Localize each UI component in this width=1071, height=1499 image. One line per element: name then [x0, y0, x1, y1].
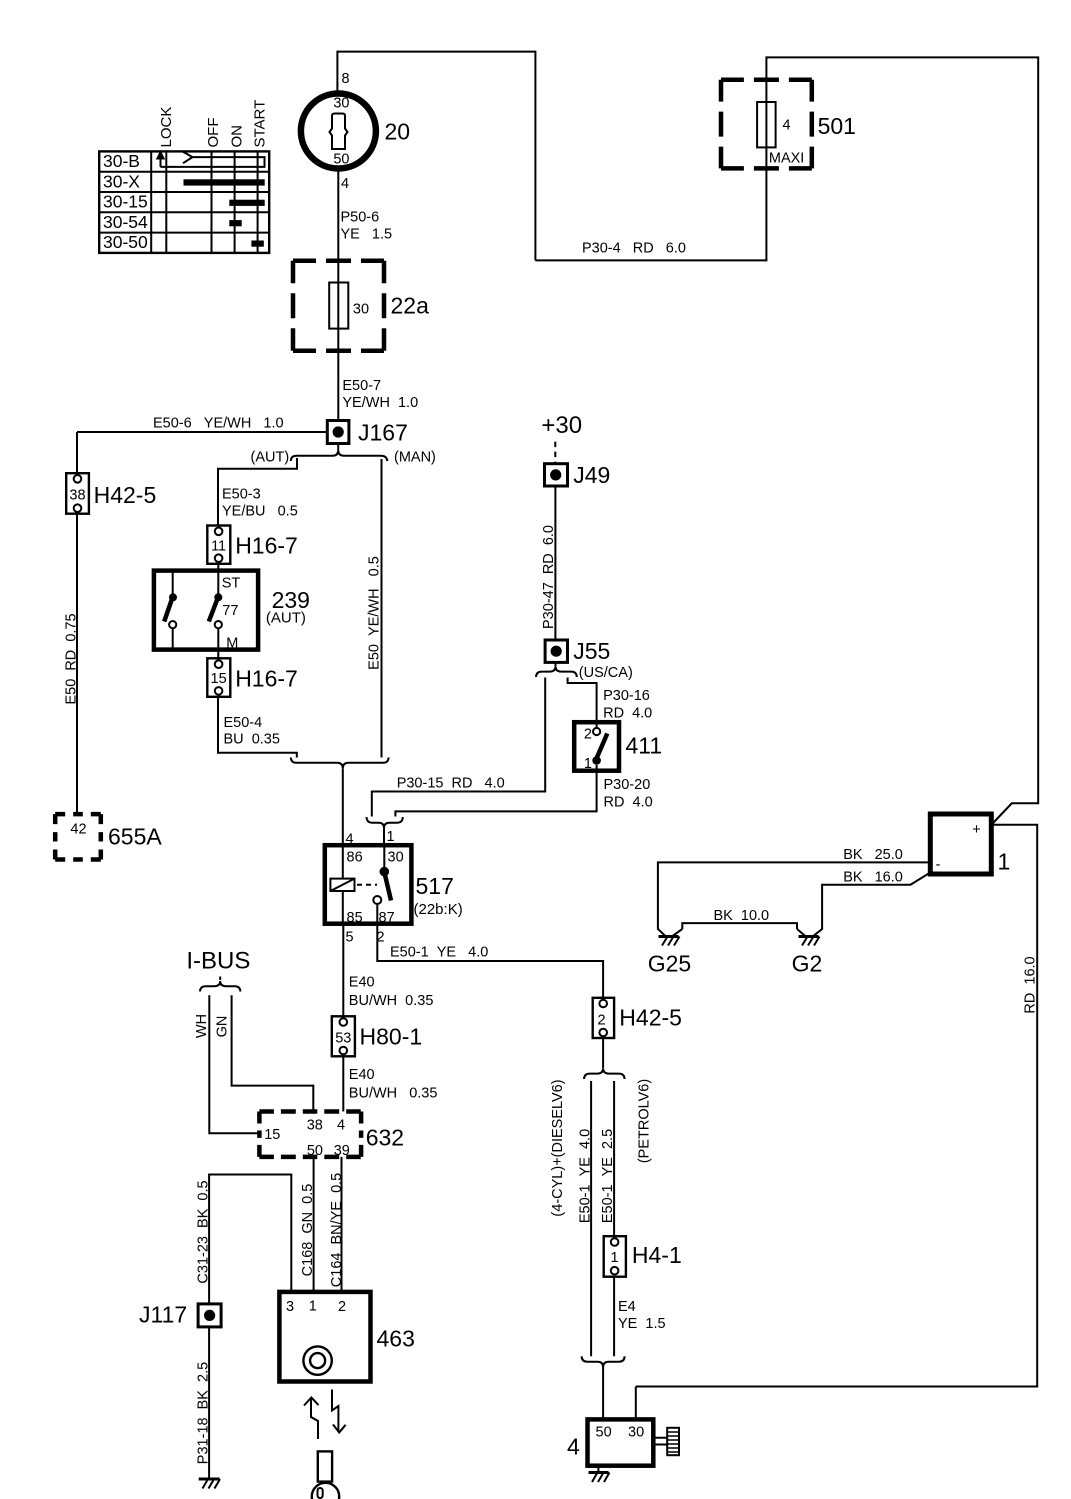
ground at unit 4	[597, 1466, 599, 1472]
svg-text:517: 517	[416, 873, 454, 899]
svg-text:START: START	[251, 100, 268, 148]
svg-text:LOCK: LOCK	[158, 107, 175, 148]
wire E4 YE 1.5	[614, 1277, 665, 1357]
svg-text:YE/WH 1.0: YE/WH 1.0	[342, 395, 418, 411]
fuse 22a	[293, 261, 429, 351]
connector H42-5 pin 2	[593, 998, 682, 1038]
wire: ignition terminal 8 feed to fuse 501	[337, 52, 535, 261]
connector H16-7 pin 11	[207, 526, 298, 564]
svg-text:E50 YE/WH 0.5: E50 YE/WH 0.5	[366, 556, 382, 670]
svg-text:G2: G2	[792, 951, 823, 977]
svg-text:H42-5: H42-5	[619, 1005, 682, 1031]
svg-text:1: 1	[309, 1299, 317, 1315]
wire C164 BN/YE 0.5 (632 pin 39 to 463 pin 2)	[329, 1157, 345, 1292]
svg-text:YE 1.5: YE 1.5	[341, 227, 393, 243]
svg-text:22a: 22a	[391, 293, 430, 319]
svg-text:(US/CA): (US/CA)	[579, 665, 633, 681]
svg-text:50: 50	[307, 1143, 323, 1159]
svg-text:RD 4.0: RD 4.0	[604, 795, 653, 811]
svg-text:P30-47 RD 6.0: P30-47 RD 6.0	[541, 525, 557, 629]
svg-text:C164 BN/YE 0.5: C164 BN/YE 0.5	[329, 1173, 345, 1287]
svg-text:463: 463	[377, 1326, 415, 1352]
svg-text:C168 GN 0.5: C168 GN 0.5	[300, 1184, 316, 1277]
svg-text:BU/WH 0.35: BU/WH 0.35	[349, 993, 434, 1009]
svg-text:+: +	[972, 822, 980, 838]
hatched actuator block at unit 4	[653, 1438, 667, 1445]
svg-text:15: 15	[264, 1127, 280, 1143]
svg-text:J49: J49	[573, 462, 610, 488]
svg-text:4: 4	[341, 176, 349, 192]
svg-text:1: 1	[584, 756, 592, 772]
svg-text:8: 8	[342, 71, 350, 87]
wire E50-4 BU 0.35	[218, 697, 297, 758]
wire BK 16.0 (battery - to G2)	[814, 870, 931, 936]
svg-text:E50-1 YE 2.5: E50-1 YE 2.5	[600, 1129, 616, 1223]
svg-text:50: 50	[333, 152, 349, 168]
svg-text:86: 86	[347, 850, 363, 866]
svg-text:3: 3	[286, 1299, 294, 1315]
splice J167	[327, 420, 408, 446]
wire BK 25.0 (battery - to G25)	[658, 847, 930, 936]
svg-text:30: 30	[333, 96, 349, 112]
svg-text:632: 632	[366, 1125, 404, 1151]
svg-text:53: 53	[335, 1030, 351, 1046]
svg-text:H42-5: H42-5	[94, 482, 157, 508]
ignition starter unit 4	[567, 1387, 679, 1483]
ignition switch position table	[99, 100, 269, 253]
svg-text:2: 2	[338, 1299, 346, 1315]
wire E50-1 YE 4.0 (relay 87 to H42-5)	[377, 924, 603, 998]
svg-text:20: 20	[385, 119, 411, 145]
wire P30-15 RD 4.0	[372, 678, 545, 817]
svg-text:E40: E40	[349, 1067, 375, 1083]
svg-text:5: 5	[346, 930, 354, 946]
svg-text:BK 10.0: BK 10.0	[714, 908, 770, 924]
svg-text:38: 38	[69, 487, 85, 503]
svg-text:C31-23 BK 0.5: C31-23 BK 0.5	[195, 1180, 211, 1283]
wire E50-1 YE 4.0 (4-cyl branch)	[578, 1081, 594, 1356]
wire P30-20 RD 4.0	[395, 765, 652, 817]
wire E40 BU/WH 0.35 (relay 85 to H80-1)	[343, 924, 433, 1017]
svg-text:BK 16.0: BK 16.0	[843, 870, 903, 886]
wire E50 YE/WH 0.5 (MAN branch)	[366, 459, 382, 758]
wire GN (I-BUS to 632 pin 38)	[215, 995, 314, 1111]
svg-text:H4-1: H4-1	[632, 1242, 682, 1268]
svg-text:J55: J55	[573, 638, 610, 664]
svg-text:E50 RD 0.75: E50 RD 0.75	[64, 613, 80, 704]
svg-text:P50-6: P50-6	[341, 210, 380, 226]
svg-text:50: 50	[596, 1425, 612, 1441]
connector H16-7 pin 15	[207, 658, 298, 697]
connector H4-1 pin 1	[604, 1236, 682, 1277]
svg-text:2: 2	[597, 1013, 605, 1029]
svg-text:GN: GN	[215, 1016, 231, 1038]
svg-text:(AUT): (AUT)	[266, 610, 306, 627]
svg-text:+30: +30	[541, 412, 582, 439]
wire E50-6 YE/WH 1.0	[77, 416, 327, 474]
svg-text:P30-20: P30-20	[604, 777, 651, 793]
svg-text:4: 4	[346, 831, 354, 847]
right switch ST/M inside 239	[217, 564, 219, 594]
svg-text:YE/BU 0.5: YE/BU 0.5	[222, 504, 298, 520]
svg-text:OFF: OFF	[205, 118, 222, 148]
svg-text:42: 42	[70, 822, 86, 838]
svg-text:P30-4 RD 6.0: P30-4 RD 6.0	[582, 241, 686, 257]
svg-text:85: 85	[347, 910, 363, 926]
svg-text:BK 25.0: BK 25.0	[843, 847, 903, 863]
svg-text:P31-18 BK 2.5: P31-18 BK 2.5	[195, 1362, 211, 1464]
svg-text:-: -	[936, 857, 941, 873]
wire P50-6 YE 1.5	[338, 169, 392, 261]
variant split 4-cyl+dieselV6 / petrolV6	[550, 1038, 652, 1217]
svg-text:E40: E40	[349, 974, 375, 990]
svg-text:30-54: 30-54	[103, 212, 148, 232]
svg-text:(22b:K): (22b:K)	[414, 901, 463, 918]
svg-text:BU/WH 0.35: BU/WH 0.35	[349, 1085, 438, 1101]
svg-text:E50-3: E50-3	[222, 487, 261, 503]
svg-text:G25: G25	[648, 951, 691, 977]
svg-text:P30-16: P30-16	[603, 688, 650, 704]
wire E50-1 YE 2.5 (petrol V6 branch)	[600, 1081, 616, 1236]
svg-text:ON: ON	[228, 125, 245, 148]
svg-text:(4-CYL)+(DIESELV6): (4-CYL)+(DIESELV6)	[550, 1079, 566, 1216]
svg-text:15: 15	[211, 671, 227, 687]
svg-text:1: 1	[998, 849, 1011, 875]
svg-text:30-50: 30-50	[103, 232, 148, 252]
control module connector 632	[259, 1112, 404, 1160]
svg-text:WH: WH	[194, 1014, 210, 1038]
svg-text:77: 77	[222, 603, 238, 619]
variant split (AUT)/(MAN) below J167	[251, 444, 436, 466]
svg-text:BU 0.35: BU 0.35	[224, 732, 280, 748]
svg-text:501: 501	[818, 113, 856, 139]
svg-text:411: 411	[626, 733, 663, 759]
wire P30-16 RD 4.0	[568, 678, 653, 729]
svg-text:E4: E4	[618, 1299, 636, 1315]
wire P30-4 RD 6.0	[535, 168, 766, 260]
ground G2	[792, 937, 823, 977]
wire E50-3 YE/BU 0.5 (AUT branch)	[218, 458, 298, 526]
svg-text:87: 87	[379, 910, 395, 926]
svg-text:655A: 655A	[108, 824, 162, 850]
ignition switch 20	[301, 71, 410, 192]
ground G25	[648, 937, 691, 977]
svg-text:30-B: 30-B	[103, 151, 140, 171]
svg-text:YE 1.5: YE 1.5	[618, 1316, 666, 1332]
svg-text:P30-15 RD 4.0: P30-15 RD 4.0	[397, 776, 505, 792]
wire C31-23 BK 0.5 (463 pin 3 to J117)	[195, 1175, 291, 1304]
svg-text:RD 16.0: RD 16.0	[1023, 956, 1039, 1013]
wire P31-18 BK 2.5 (J117 to ground)	[195, 1327, 211, 1479]
transponder signal arrows below 463	[304, 1390, 346, 1440]
svg-text:30: 30	[388, 850, 404, 866]
svg-text:H16-7: H16-7	[235, 666, 298, 692]
svg-text:E50-1 YE 4.0: E50-1 YE 4.0	[390, 945, 488, 961]
svg-text:E50-7: E50-7	[342, 378, 381, 394]
splice J55	[545, 638, 610, 664]
wire RD 16.0 (battery + to unit 4 terminal 30)	[636, 825, 1039, 1387]
wire E40 BU/WH 0.35 (H80-1 to 632 pin 4)	[343, 1056, 437, 1111]
svg-text:30-15: 30-15	[103, 192, 148, 212]
relay coil	[330, 879, 354, 891]
svg-text:38: 38	[307, 1118, 323, 1134]
svg-text:RD 4.0: RD 4.0	[603, 705, 652, 721]
wire WH (I-BUS to 632 pin 15)	[194, 995, 259, 1133]
svg-text:(PETROLV6): (PETROLV6)	[637, 1079, 653, 1163]
I-BUS label and split	[186, 948, 250, 992]
svg-text:H16-7: H16-7	[235, 533, 298, 559]
battery feed +30	[541, 412, 582, 464]
svg-text:11: 11	[211, 539, 226, 555]
svg-text:30-X: 30-X	[103, 171, 140, 191]
svg-text:H80-1: H80-1	[360, 1024, 423, 1050]
connector H42-5 pin 38	[66, 473, 156, 514]
anti-theft lock switch 411	[574, 722, 662, 772]
svg-text:I-BUS: I-BUS	[186, 948, 250, 975]
relay contact	[342, 845, 344, 924]
svg-text:30: 30	[628, 1424, 644, 1440]
key glyph inside ignition switch	[330, 114, 348, 150]
svg-text:M: M	[226, 636, 238, 652]
splice J117	[139, 1302, 221, 1328]
wire BK 10.0 (G25 to G2)	[673, 908, 805, 936]
svg-text:E50-4: E50-4	[224, 715, 263, 731]
connector H80-1 pin 53	[332, 1016, 422, 1056]
svg-text:(MAN): (MAN)	[394, 450, 436, 466]
battery 1	[930, 814, 1010, 875]
ground below J117	[199, 1479, 220, 1489]
wire E50 RD 0.75	[64, 514, 80, 814]
svg-text:39: 39	[334, 1143, 350, 1159]
svg-text:4: 4	[337, 1118, 345, 1134]
wire E50-7 YE/WH 1.0	[338, 351, 418, 421]
wire: fuse 501 to battery positive	[766, 57, 1038, 823]
svg-text:2: 2	[584, 727, 592, 743]
svg-text:1: 1	[611, 1250, 619, 1266]
svg-text:ST: ST	[222, 576, 241, 592]
main relay 517 (22b:K)	[325, 829, 463, 945]
left switch inside 239	[172, 571, 174, 594]
variant merge above unit 4	[582, 1356, 625, 1419]
fuse 501 MAXI	[721, 80, 856, 169]
svg-text:4: 4	[783, 117, 791, 133]
svg-text:(AUT): (AUT)	[251, 450, 290, 466]
svg-text:E50-1 YE 4.0: E50-1 YE 4.0	[578, 1129, 594, 1223]
svg-text:30: 30	[353, 302, 369, 318]
svg-text:E50-6 YE/WH 1.0: E50-6 YE/WH 1.0	[153, 416, 284, 432]
wire C168 GN 0.5 (632 pin 50 to 463 pin 1)	[300, 1157, 316, 1292]
svg-text:MAXI: MAXI	[769, 150, 804, 166]
svg-text:J167: J167	[358, 420, 408, 446]
connector 655A pin 42	[55, 814, 162, 859]
svg-text:1: 1	[387, 829, 395, 845]
splice J49	[545, 462, 611, 488]
wire P30-47 RD 6.0	[541, 486, 557, 640]
immobilizer antenna unit 463	[279, 1292, 414, 1382]
variant merge (AUT)/(MAN) above relay 517	[291, 758, 389, 846]
ignition switch module 239 (AUT)	[154, 564, 310, 659]
variant split (US/CA) below J55	[536, 662, 633, 681]
svg-text:4: 4	[567, 1434, 580, 1460]
variant merge at relay 517 pin 1	[367, 817, 403, 845]
ignition key symbol	[312, 1451, 339, 1499]
svg-text:J117: J117	[139, 1302, 187, 1328]
